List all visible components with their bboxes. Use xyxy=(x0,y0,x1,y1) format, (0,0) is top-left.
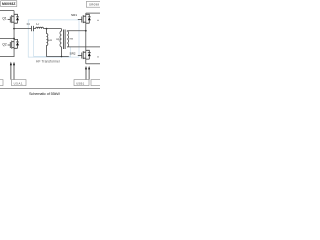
node: Lm tap xyxy=(46,28,48,30)
resonant tank outline inner (light blue) xyxy=(34,26,71,56)
bottom separator line xyxy=(0,88,100,90)
svg-text:Schematic of 55kW: Schematic of 55kW xyxy=(29,92,60,96)
transistor SR1 xyxy=(78,14,91,23)
wire: bridge midpoint to Cr xyxy=(14,28,31,30)
transformer primary winding xyxy=(60,29,62,57)
svg-text:SR1: SR1 xyxy=(71,13,77,17)
transistor SR2 xyxy=(78,50,91,59)
svg-text:np: np xyxy=(56,37,60,41)
wire: right SR rail (SR1 drain to SR2 source) xyxy=(85,13,87,64)
node: primary return junction xyxy=(61,56,63,58)
svg-text:SR098: SR098 xyxy=(89,3,99,7)
svg-text:Q1: Q1 xyxy=(2,17,6,21)
svg-text:ns: ns xyxy=(70,36,74,40)
svg-text:SR2: SR2 xyxy=(70,52,76,56)
Q1 body diode triangle xyxy=(16,17,19,20)
Q2 body diode triangle xyxy=(16,42,19,45)
SR2 body diode triangle xyxy=(88,53,91,56)
wire: secondary top tap to SR rail xyxy=(67,30,86,32)
box right partial (cropped at edge) xyxy=(91,80,103,86)
svg-text:U5B1: U5B1 xyxy=(76,81,84,85)
svg-text:Q2: Q2 xyxy=(2,42,6,46)
part-number label box top-left xyxy=(1,1,17,7)
wire: output top rail to right edge xyxy=(86,12,100,14)
wire Lr to transformer primary xyxy=(44,28,62,30)
output terminal marks at right edge xyxy=(97,20,99,57)
transistor Q1 xyxy=(8,14,19,23)
node: mid input junction xyxy=(13,38,15,40)
gate drive arrow left A xyxy=(10,65,12,80)
transformer core xyxy=(64,30,66,50)
driver box right xyxy=(74,80,89,86)
svg-text:U5A1: U5A1 xyxy=(14,81,23,85)
svg-text:Lr: Lr xyxy=(36,22,39,26)
wire: bottom return rail (Lm/primary return) xyxy=(46,56,69,58)
driver box left xyxy=(12,80,27,86)
gate drive arrow left B xyxy=(13,65,15,80)
SR1 body diode triangle xyxy=(88,17,91,20)
resonant tank outline outer (light blue) xyxy=(28,20,79,57)
svg-text:HF Transformer: HF Transformer xyxy=(36,59,61,63)
wire: top input rail from left edge xyxy=(0,10,14,12)
wire: left bridge rail (Q1 drain to Q2 source) xyxy=(13,11,15,57)
transistor Q2 xyxy=(8,39,19,48)
label box top-right (cropped at edge) xyxy=(86,2,103,8)
node: bridge midpoint (Cr tap) xyxy=(13,28,15,30)
capacitor Cr xyxy=(32,26,34,31)
gate drive arrow right B xyxy=(88,69,90,79)
svg-text:M6098Z: M6098Z xyxy=(2,2,16,6)
node: SR mid junction xyxy=(85,30,87,32)
wire: mid input from left edge xyxy=(0,38,14,40)
svg-text:Lm: Lm xyxy=(48,38,53,42)
inductor Lr xyxy=(36,27,44,28)
inductor Lm (magnetizing) xyxy=(47,29,48,57)
svg-text:Cr: Cr xyxy=(27,22,30,26)
transformer secondary winding xyxy=(67,31,69,47)
wire: secondary bottom tap to right edge xyxy=(67,46,100,48)
gate drive arrow right A xyxy=(85,69,87,79)
wire Cr to Lr xyxy=(33,28,35,30)
wire: output bottom rail to right edge xyxy=(86,63,100,65)
wire: bottom-left input rail from left edge xyxy=(0,56,15,58)
driver box left partial (cropped at edge) xyxy=(0,80,3,86)
